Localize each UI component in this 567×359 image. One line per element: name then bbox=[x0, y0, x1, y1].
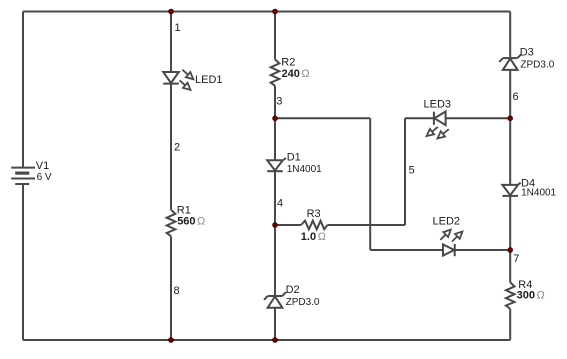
wire node3 segment bbox=[274, 86, 276, 160]
resistor R4 bbox=[506, 282, 515, 308]
junction node 7 bbox=[508, 248, 513, 253]
wire LED2 to node7 bbox=[455, 249, 511, 251]
svg-text:4: 4 bbox=[277, 197, 283, 209]
svg-text:ZPD3.0: ZPD3.0 bbox=[286, 297, 320, 308]
svg-text:1N4001: 1N4001 bbox=[287, 164, 322, 175]
svg-text:6 V: 6 V bbox=[37, 172, 52, 183]
junction node 1b bbox=[273, 9, 278, 14]
wire D3 to node6 bbox=[509, 70, 511, 118]
wire D4 to node7 bbox=[509, 196, 511, 250]
wire LED3 to node6 bbox=[446, 117, 511, 119]
zener diode D2 bbox=[264, 292, 286, 308]
svg-text:7: 7 bbox=[513, 253, 519, 265]
wire left rail upper bbox=[22, 12, 24, 168]
LED1 arrow 1 bbox=[182, 70, 193, 80]
wire node1 to R2 bbox=[274, 12, 276, 60]
svg-text:300Ω: 300Ω bbox=[517, 289, 545, 301]
diode D1 bbox=[267, 160, 283, 171]
svg-text:LED3: LED3 bbox=[424, 99, 452, 111]
svg-text:1N4001: 1N4001 bbox=[521, 188, 556, 199]
wire node3 vertical down bbox=[369, 118, 371, 250]
wire top to D3 bbox=[509, 12, 511, 59]
svg-text:5: 5 bbox=[409, 165, 415, 177]
svg-text:1.0Ω: 1.0Ω bbox=[301, 231, 326, 243]
svg-text:ZPD3.0: ZPD3.0 bbox=[520, 59, 554, 70]
wire node6 to D4 bbox=[509, 118, 511, 185]
resistor R3 bbox=[301, 221, 327, 230]
resistor R1 bbox=[167, 210, 176, 236]
svg-text:2: 2 bbox=[174, 142, 180, 154]
junction node 3 bbox=[273, 116, 278, 121]
svg-text:3: 3 bbox=[276, 96, 282, 108]
LED2 arrow 1 bbox=[440, 230, 451, 240]
junction node 6 bbox=[508, 116, 513, 121]
D4 label tick bbox=[518, 183, 521, 185]
wire D2 to bottom rail bbox=[274, 308, 276, 340]
wire bottom rail bbox=[23, 339, 510, 341]
wire R3 to net5 corner bbox=[327, 224, 405, 226]
LED2 arrow 2 bbox=[452, 232, 463, 242]
svg-text:D3: D3 bbox=[520, 46, 534, 58]
wire node4 segment bbox=[274, 171, 276, 296]
wire R4 to bottom rail bbox=[509, 309, 511, 340]
wire net5 vertical bbox=[404, 118, 406, 225]
wire node8 segment bbox=[170, 236, 172, 340]
junction bottom left branch bbox=[169, 338, 174, 343]
junction bottom mid branch bbox=[273, 338, 278, 343]
svg-text:8: 8 bbox=[174, 285, 180, 297]
svg-text:LED2: LED2 bbox=[433, 215, 461, 227]
LED3 arrow 1 bbox=[427, 127, 438, 136]
resistor R2 bbox=[271, 59, 280, 85]
LED D_LED3 bbox=[434, 112, 446, 126]
wire node3 horizontal bbox=[275, 117, 370, 119]
battery V1 bbox=[11, 168, 35, 184]
svg-text:560Ω: 560Ω bbox=[177, 216, 205, 228]
svg-text:V1: V1 bbox=[36, 160, 49, 172]
wire node7 to R4 bbox=[509, 250, 511, 282]
LED3 arrow 2 bbox=[438, 129, 449, 138]
svg-text:LED1: LED1 bbox=[195, 74, 223, 86]
svg-text:D2: D2 bbox=[286, 284, 300, 296]
LED1 arrow 2 bbox=[180, 80, 191, 90]
svg-text:6: 6 bbox=[513, 91, 519, 103]
wire top rail bbox=[23, 11, 510, 13]
D1 label tick bbox=[283, 158, 286, 160]
wire net5 to LED3 bbox=[405, 117, 434, 119]
diode D4 bbox=[502, 185, 518, 196]
wire node1 to LED1 bbox=[170, 12, 172, 73]
LED D_LED2 bbox=[443, 244, 455, 256]
svg-text:R2: R2 bbox=[281, 56, 295, 68]
wire node2 segment bbox=[170, 84, 172, 210]
wire node4 to R3 bbox=[275, 224, 301, 226]
junction node 1 bbox=[169, 9, 174, 14]
wire to LED2 anode bbox=[370, 249, 443, 251]
svg-text:240Ω: 240Ω bbox=[282, 68, 310, 80]
junction node 4 bbox=[273, 223, 278, 228]
wire left rail lower bbox=[22, 184, 24, 340]
LED D_LED1 bbox=[163, 72, 179, 84]
svg-text:1: 1 bbox=[175, 22, 181, 34]
zener diode D3 bbox=[499, 54, 521, 70]
svg-text:D1: D1 bbox=[287, 152, 301, 164]
svg-text:R3: R3 bbox=[307, 208, 321, 220]
